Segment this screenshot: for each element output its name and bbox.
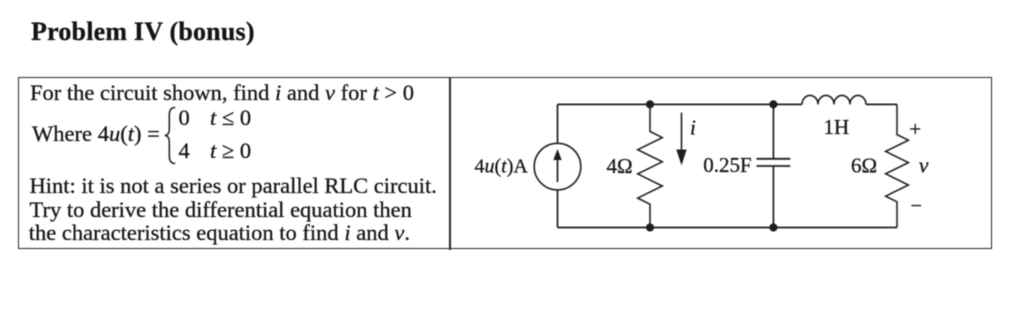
- wire top-left horizontal: [558, 103, 803, 105]
- current source U1 circle: [534, 143, 581, 190]
- svg-text:6Ω: 6Ω: [851, 154, 877, 178]
- node dot top 4ohm: [646, 100, 654, 108]
- capacitor plates: [757, 158, 791, 160]
- resistor R2 6ohm: [886, 104, 909, 227]
- capacitor C1 wire top: [772, 104, 774, 158]
- inductor L1 1H: [802, 95, 866, 104]
- node dot bottom 4ohm: [646, 223, 654, 231]
- hint lines: [30, 173, 437, 199]
- piecewise rows: [179, 105, 190, 131]
- node dot bottom cap: [769, 223, 777, 231]
- capacitor wire bottom: [772, 166, 774, 228]
- table cell divider: [449, 77, 451, 251]
- current i arrow: [681, 113, 683, 150]
- resistor R1 4ohm: [638, 104, 663, 227]
- node dot top cap: [769, 100, 777, 108]
- title: [31, 17, 255, 47]
- svg-text:–: –: [911, 194, 922, 214]
- wire left rail below source: [557, 190, 559, 228]
- svg-text:v: v: [919, 153, 929, 178]
- text line 1: [30, 80, 414, 106]
- equation brace: [165, 108, 176, 164]
- wire left rail above source: [557, 104, 559, 143]
- svg-text:i: i: [690, 116, 696, 140]
- svg-text:0.25F: 0.25F: [703, 153, 751, 177]
- svg-text:1H: 1H: [824, 115, 850, 139]
- current source arrow: [557, 157, 559, 182]
- wire top-right (after inductor): [866, 103, 897, 105]
- svg-text:4Ω: 4Ω: [607, 154, 633, 178]
- svg-text:+: +: [909, 117, 921, 141]
- text Where: [32, 121, 92, 147]
- svg-text:4u(t)A: 4u(t)A: [475, 156, 529, 178]
- table outer border: [18, 77, 992, 249]
- wire bottom horizontal: [558, 227, 898, 229]
